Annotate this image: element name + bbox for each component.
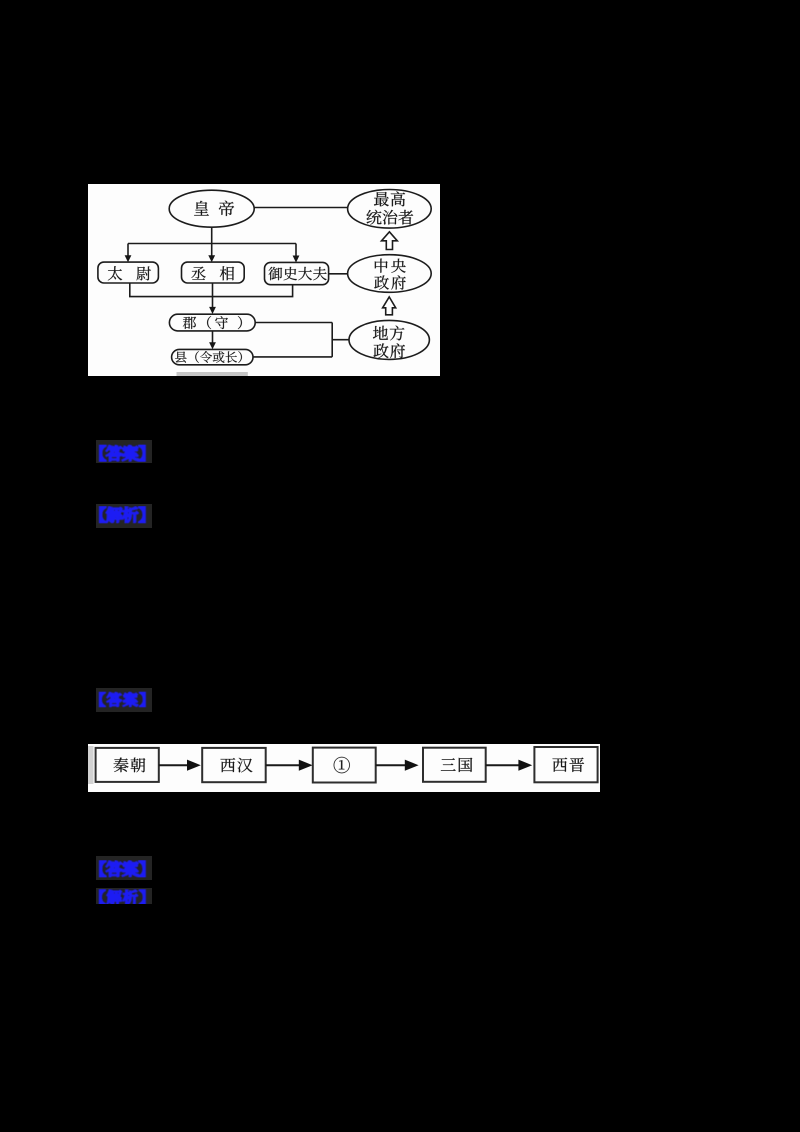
- hollow up arrow: 地方政府 to 中央政府: [383, 297, 396, 315]
- white panel: Qin government structure diagram: [88, 184, 440, 376]
- ellipse node: 中央政府 (central government): [348, 255, 432, 293]
- rounded box: 郡(守): [169, 314, 255, 331]
- white panel: dynasty timeline diagram: [88, 744, 600, 792]
- blue answer label 2: 【答案】: [96, 688, 152, 712]
- wire: horizontal branch line: [128, 243, 296, 245]
- wire: 皇帝 down to branch line: [211, 227, 213, 243]
- blue answer label 1: 【答案】: [96, 440, 152, 463]
- timeline box: 三国: [423, 748, 486, 782]
- wire: 皇帝 to 最高统治者: [254, 207, 348, 209]
- ellipse node: 皇帝 (emperor): [169, 190, 254, 227]
- rounded box: 丞相: [182, 262, 245, 283]
- rounded box: 御史大夫: [265, 262, 329, 284]
- arrow: 郡(守) down to 县(令或长): [209, 331, 216, 349]
- ellipse node: 地方政府 (local government): [349, 320, 429, 359]
- blue analysis label 2: 【解析】: [96, 888, 152, 904]
- arrow: 丞相 down to 郡(守): [209, 283, 216, 314]
- arrow: 西汉 to next: [266, 760, 313, 771]
- arrow: branch to 丞相: [208, 244, 215, 263]
- timeline box: 西汉: [202, 748, 266, 782]
- ellipse node: 最高统治者 (highest ruler): [348, 190, 432, 229]
- hollow up arrow: 中央政府 to 最高统治者: [382, 232, 398, 250]
- arrow: 三国 to next: [486, 760, 533, 771]
- timeline box: ①: [313, 748, 376, 783]
- arrow: branch to 御史大夫: [293, 244, 300, 263]
- wire: lower connector line under three boxes: [130, 283, 293, 297]
- gray sliver at left edge: [88, 746, 94, 784]
- arrow: 秦朝 to next: [159, 760, 201, 771]
- rounded box: 县(令或长): [172, 349, 253, 364]
- arrow: ① to next: [376, 760, 419, 771]
- wire: 御史大夫 to 中央政府: [329, 273, 348, 275]
- wire: bracket from 郡/县 to 地方政府: [253, 323, 349, 357]
- gray artifact strip under 县 box: [177, 372, 248, 376]
- timeline box: 西晋: [534, 747, 597, 782]
- arrow: branch to 太尉: [125, 244, 132, 263]
- rounded box: 太尉: [98, 262, 158, 283]
- blue answer label 3: 【答案】: [96, 856, 152, 880]
- timeline box: 秦朝: [96, 748, 159, 782]
- blue analysis label 1: 【解析】: [96, 504, 152, 528]
